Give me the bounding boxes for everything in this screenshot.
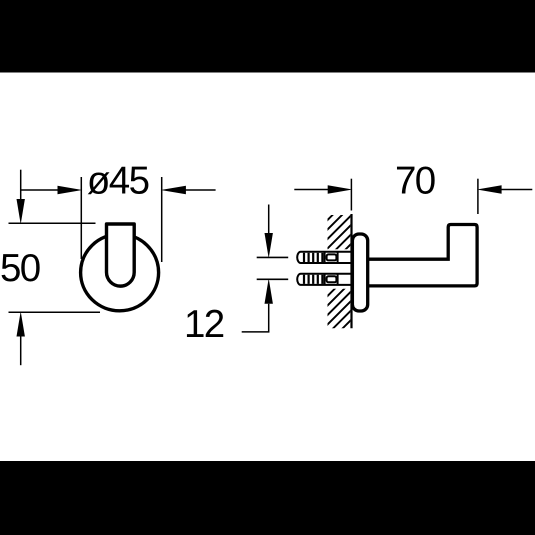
svg-text:12: 12 — [184, 303, 224, 346]
svg-text:70: 70 — [395, 159, 435, 202]
svg-text:50: 50 — [0, 247, 40, 290]
svg-text:ø45: ø45 — [87, 160, 149, 203]
